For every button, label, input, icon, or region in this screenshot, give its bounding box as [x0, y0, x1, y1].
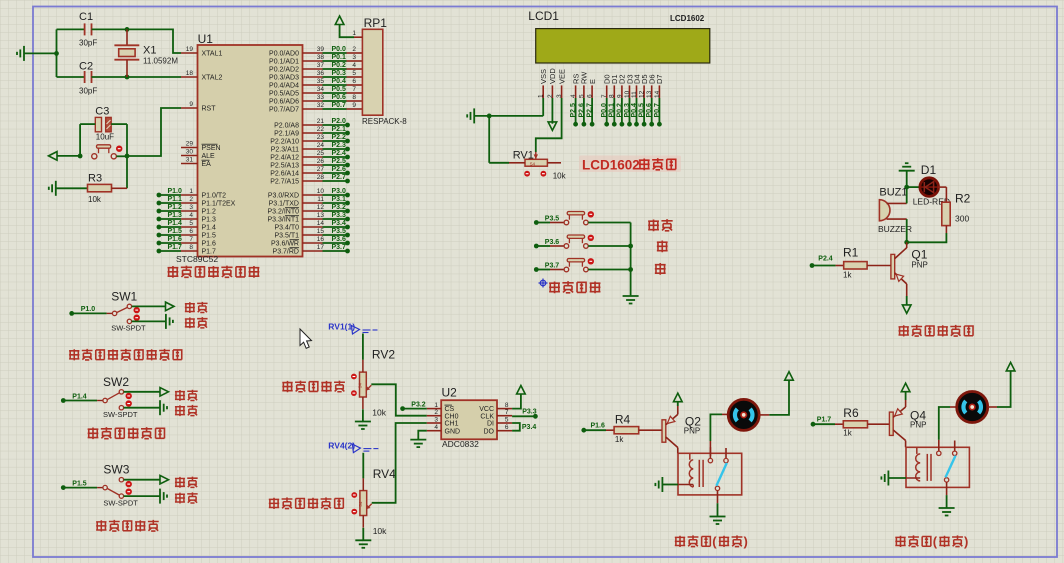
svg-text:PNP: PNP — [910, 421, 926, 430]
svg-text:P1.7: P1.7 — [168, 244, 183, 251]
svg-text:P0.0/AD0: P0.0/AD0 — [269, 51, 299, 58]
svg-text:14: 14 — [654, 90, 661, 98]
svg-text:32: 32 — [317, 102, 325, 109]
svg-text:34: 34 — [317, 86, 325, 93]
svg-text:P3.3/INT1: P3.3/INT1 — [267, 217, 299, 224]
svg-text:24: 24 — [317, 142, 325, 149]
svg-text:30pF: 30pF — [79, 39, 97, 48]
svg-text:P1.6: P1.6 — [168, 236, 183, 243]
svg-text:LCD1602: LCD1602 — [670, 14, 705, 23]
svg-text:12: 12 — [317, 204, 325, 211]
svg-text:P2.6/A14: P2.6/A14 — [270, 171, 299, 178]
svg-text:C2: C2 — [79, 61, 93, 73]
svg-text:P1.0: P1.0 — [168, 188, 183, 195]
svg-text:CH1: CH1 — [445, 421, 459, 428]
svg-text:PSEN: PSEN — [202, 145, 221, 152]
svg-text:P1.5: P1.5 — [72, 480, 87, 487]
svg-text:P3.1/TXD: P3.1/TXD — [269, 201, 299, 208]
svg-text:RST: RST — [202, 106, 217, 113]
svg-text:5: 5 — [505, 417, 509, 424]
svg-text:15: 15 — [317, 228, 325, 235]
svg-text:18: 18 — [186, 70, 194, 77]
svg-text:P3.2/INT0: P3.2/INT0 — [267, 209, 299, 216]
svg-text:D7: D7 — [655, 74, 664, 84]
svg-text:3: 3 — [434, 417, 438, 424]
svg-text:1: 1 — [538, 94, 545, 98]
svg-text:RP1: RP1 — [364, 16, 388, 30]
svg-text:P2.7/A15: P2.7/A15 — [270, 179, 299, 186]
svg-text:8: 8 — [609, 94, 616, 98]
svg-text:LCD1: LCD1 — [528, 9, 559, 23]
svg-text:10k: 10k — [373, 526, 387, 536]
svg-text:R3: R3 — [88, 173, 102, 185]
svg-text:9: 9 — [189, 101, 193, 108]
svg-text:5: 5 — [352, 70, 356, 77]
svg-text:Q1: Q1 — [911, 247, 927, 261]
svg-text:BUZ1: BUZ1 — [879, 186, 907, 198]
svg-text:26: 26 — [317, 158, 325, 165]
svg-text:RV4(2): RV4(2) — [328, 441, 355, 451]
svg-text:LCD1602: LCD1602 — [582, 158, 640, 173]
svg-text:10k: 10k — [553, 171, 567, 180]
svg-text:P3.6: P3.6 — [545, 239, 560, 246]
svg-text:P2.4/A12: P2.4/A12 — [270, 155, 299, 162]
svg-text:33: 33 — [317, 94, 325, 101]
svg-text:P3.7/RD: P3.7/RD — [273, 249, 299, 256]
svg-text:P1.2: P1.2 — [168, 204, 183, 211]
svg-text:2: 2 — [547, 94, 554, 98]
svg-text:CS: CS — [445, 406, 455, 413]
svg-text:SW-SPDT: SW-SPDT — [103, 410, 138, 419]
svg-text:P1.5: P1.5 — [168, 228, 183, 235]
svg-text:35: 35 — [317, 78, 325, 85]
svg-text:C3: C3 — [95, 106, 109, 118]
svg-text:ADC0832: ADC0832 — [442, 439, 479, 449]
svg-text:SW-SPDT: SW-SPDT — [103, 498, 138, 507]
svg-text:30: 30 — [186, 149, 194, 156]
svg-text:P2.4: P2.4 — [818, 256, 833, 263]
svg-text:10k: 10k — [88, 195, 102, 204]
svg-text:P1.4: P1.4 — [202, 225, 217, 232]
svg-text:29: 29 — [186, 141, 194, 148]
svg-text:10: 10 — [317, 188, 325, 195]
svg-text:6: 6 — [189, 228, 193, 235]
svg-text:P2.5/A13: P2.5/A13 — [270, 163, 299, 170]
svg-text:3: 3 — [556, 94, 563, 98]
svg-text:CLK: CLK — [480, 413, 494, 420]
svg-text:RV4: RV4 — [373, 467, 396, 481]
svg-text:P1.3: P1.3 — [168, 212, 183, 219]
svg-text:16: 16 — [317, 236, 325, 243]
svg-text:13: 13 — [646, 90, 653, 98]
svg-text:P3.6: P3.6 — [332, 236, 347, 243]
svg-text:P3.0/RXD: P3.0/RXD — [268, 193, 299, 200]
svg-text:39: 39 — [317, 46, 325, 53]
svg-text:P0.5/AD5: P0.5/AD5 — [269, 91, 299, 98]
svg-text:P3.3: P3.3 — [332, 212, 347, 219]
svg-text:VEE: VEE — [557, 69, 566, 84]
svg-text:36: 36 — [317, 70, 325, 77]
svg-text:RESPACK-8: RESPACK-8 — [362, 117, 407, 126]
svg-text:P2.2/A10: P2.2/A10 — [270, 139, 299, 146]
svg-text:(: ( — [712, 534, 717, 549]
svg-text:P1.0/T2: P1.0/T2 — [202, 193, 227, 200]
svg-text:P3.5: P3.5 — [332, 228, 347, 235]
svg-text:SW1: SW1 — [111, 289, 137, 303]
svg-text:P3.7: P3.7 — [332, 244, 347, 251]
svg-text:P2.6: P2.6 — [332, 166, 347, 173]
svg-text:XTAL1: XTAL1 — [202, 51, 223, 58]
svg-text:P0.7: P0.7 — [332, 102, 347, 109]
svg-text:P2.7: P2.7 — [332, 174, 347, 181]
svg-text:P3.4: P3.4 — [332, 220, 347, 227]
svg-text:1: 1 — [434, 402, 438, 409]
svg-text:P1.6: P1.6 — [591, 423, 606, 430]
svg-text:GND: GND — [445, 428, 461, 435]
svg-text:P1.2: P1.2 — [202, 209, 217, 216]
svg-text:P2.5: P2.5 — [332, 158, 347, 165]
svg-text:6: 6 — [587, 94, 594, 98]
svg-text:P2.3/A11: P2.3/A11 — [271, 147, 299, 154]
svg-text:P1.7: P1.7 — [202, 249, 217, 256]
svg-text:P1.7: P1.7 — [817, 417, 832, 424]
svg-text:P3.6/WR: P3.6/WR — [271, 241, 299, 248]
svg-text:11.0592M: 11.0592M — [143, 57, 178, 66]
svg-text:37: 37 — [317, 62, 325, 69]
svg-text:U1: U1 — [198, 32, 214, 46]
svg-text:1: 1 — [189, 188, 193, 195]
svg-text:11: 11 — [317, 196, 324, 203]
svg-text:P2.4: P2.4 — [332, 150, 347, 157]
svg-text:31: 31 — [186, 157, 194, 164]
svg-text:9: 9 — [616, 94, 623, 98]
svg-text:SW3: SW3 — [103, 463, 129, 477]
svg-text:P3.0: P3.0 — [332, 188, 347, 195]
svg-text:P3.3: P3.3 — [522, 408, 537, 415]
svg-text:P3.7: P3.7 — [545, 263, 560, 270]
svg-text:30pF: 30pF — [79, 87, 97, 96]
svg-text:R1: R1 — [843, 246, 859, 260]
svg-text:D1: D1 — [921, 163, 937, 177]
svg-text:P2.0/A8: P2.0/A8 — [274, 123, 299, 130]
svg-text:VCC: VCC — [479, 406, 494, 413]
svg-text:8: 8 — [189, 244, 193, 251]
svg-text:4: 4 — [189, 212, 193, 219]
svg-text:P3.5: P3.5 — [545, 216, 560, 223]
svg-text:P3.1: P3.1 — [332, 196, 347, 203]
svg-text:P1.1: P1.1 — [168, 196, 183, 203]
svg-text:PNP: PNP — [684, 427, 700, 436]
svg-text:RV2: RV2 — [372, 348, 395, 362]
svg-text:PNP: PNP — [911, 261, 927, 270]
svg-text:U2: U2 — [442, 386, 458, 400]
svg-text:P1.3: P1.3 — [202, 217, 217, 224]
svg-text:P0.1: P0.1 — [332, 54, 347, 61]
svg-text:VSS: VSS — [539, 69, 548, 84]
svg-text:10: 10 — [624, 90, 631, 98]
svg-text:P0.1/AD1: P0.1/AD1 — [269, 59, 299, 66]
svg-text:19: 19 — [186, 46, 194, 53]
svg-text:11: 11 — [631, 91, 638, 98]
svg-text:ALE: ALE — [202, 153, 216, 160]
svg-text:8: 8 — [505, 402, 509, 409]
svg-text:P0.4: P0.4 — [332, 78, 347, 85]
svg-text:P0.3: P0.3 — [332, 70, 347, 77]
svg-text:P0.4/AD4: P0.4/AD4 — [269, 83, 299, 90]
svg-text:5: 5 — [578, 94, 585, 98]
svg-text:C1: C1 — [79, 11, 93, 23]
svg-text:R2: R2 — [955, 192, 971, 206]
svg-text:P3.4/T0: P3.4/T0 — [274, 225, 299, 232]
svg-text:SW-SPDT: SW-SPDT — [111, 324, 146, 333]
svg-text:P3.5/T1: P3.5/T1 — [274, 233, 299, 240]
svg-text:EA: EA — [202, 161, 212, 168]
svg-text:1k: 1k — [843, 429, 852, 438]
svg-text:P0.0: P0.0 — [332, 46, 347, 53]
svg-text:4: 4 — [352, 62, 356, 69]
svg-text:13: 13 — [317, 212, 325, 219]
svg-text:RV1: RV1 — [513, 150, 534, 162]
svg-text:2: 2 — [189, 196, 193, 203]
svg-text:8: 8 — [352, 94, 356, 101]
svg-text:4: 4 — [434, 424, 438, 431]
svg-text:P0.6: P0.6 — [332, 94, 347, 101]
svg-text:3: 3 — [352, 54, 356, 61]
svg-text:14: 14 — [317, 220, 325, 227]
svg-text:12: 12 — [639, 90, 646, 98]
svg-text:9: 9 — [352, 102, 356, 109]
svg-text:2: 2 — [352, 46, 356, 53]
svg-text:P0.5: P0.5 — [332, 86, 347, 93]
svg-text:XTAL2: XTAL2 — [202, 75, 223, 82]
svg-text:SW2: SW2 — [103, 375, 129, 389]
svg-text:27: 27 — [317, 166, 325, 173]
svg-text:P2.1/A9: P2.1/A9 — [274, 131, 299, 138]
svg-text:1: 1 — [352, 30, 356, 37]
svg-text:P2.1: P2.1 — [332, 126, 347, 133]
svg-text:P0.3/AD3: P0.3/AD3 — [269, 75, 299, 82]
svg-text:CH0: CH0 — [445, 413, 459, 420]
svg-text:7: 7 — [352, 86, 356, 93]
svg-text:X1: X1 — [143, 45, 156, 57]
svg-text:): ) — [744, 534, 748, 549]
svg-text:P3.2: P3.2 — [411, 401, 426, 408]
svg-text:R6: R6 — [843, 406, 859, 420]
svg-text:6: 6 — [352, 78, 356, 85]
svg-text:R4: R4 — [615, 413, 631, 427]
svg-text:23: 23 — [317, 134, 325, 141]
svg-text:38: 38 — [317, 54, 325, 61]
svg-text:25: 25 — [317, 150, 325, 157]
svg-text:300: 300 — [955, 214, 969, 224]
svg-text:1k: 1k — [843, 270, 852, 279]
svg-text:P1.6: P1.6 — [202, 241, 217, 248]
svg-text:10uF: 10uF — [96, 133, 114, 142]
svg-text:28: 28 — [317, 174, 325, 181]
svg-text:2: 2 — [434, 409, 438, 416]
svg-text:DI: DI — [487, 421, 494, 428]
svg-text:21: 21 — [317, 118, 325, 125]
svg-text:17: 17 — [317, 244, 325, 251]
svg-text:P1.5: P1.5 — [202, 233, 217, 240]
svg-text:(: ( — [933, 534, 938, 549]
svg-text:P3.4: P3.4 — [522, 424, 537, 431]
svg-text:P1.1/T2EX: P1.1/T2EX — [202, 201, 236, 208]
svg-text:DO: DO — [484, 428, 495, 435]
svg-text:10k: 10k — [372, 407, 386, 417]
svg-text:P1.0: P1.0 — [81, 306, 96, 313]
svg-text:P1.4: P1.4 — [168, 220, 183, 227]
svg-text:P0.2/AD2: P0.2/AD2 — [269, 67, 299, 74]
svg-text:7: 7 — [505, 409, 509, 416]
svg-text:22: 22 — [317, 126, 325, 133]
svg-text:54: 54 — [357, 383, 362, 389]
svg-text:P1.4: P1.4 — [72, 393, 87, 400]
svg-text:5: 5 — [189, 220, 193, 227]
svg-text:P2.0: P2.0 — [332, 118, 347, 125]
svg-text:E: E — [588, 79, 597, 84]
svg-text:P3.2: P3.2 — [332, 204, 347, 211]
svg-text:4: 4 — [570, 94, 577, 98]
svg-text:P2.2: P2.2 — [332, 134, 347, 141]
svg-text:1k: 1k — [615, 435, 624, 444]
svg-text:7: 7 — [601, 94, 608, 98]
svg-text:6: 6 — [505, 424, 509, 431]
svg-text:P2.3: P2.3 — [332, 142, 347, 149]
svg-text:3: 3 — [189, 204, 193, 211]
svg-text:7: 7 — [189, 236, 193, 243]
svg-text:54: 54 — [530, 162, 536, 167]
svg-text:VDD: VDD — [548, 68, 557, 84]
svg-text:54: 54 — [358, 501, 363, 507]
svg-text:P0.7/AD7: P0.7/AD7 — [269, 107, 299, 114]
svg-text:P0.6/AD6: P0.6/AD6 — [269, 99, 299, 106]
svg-text:): ) — [964, 534, 968, 549]
svg-text:P0.2: P0.2 — [332, 62, 347, 69]
